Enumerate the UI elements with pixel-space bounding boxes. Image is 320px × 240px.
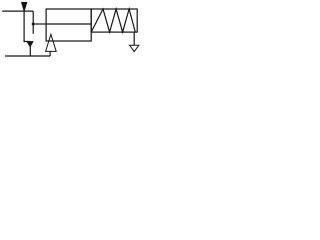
spring box xyxy=(91,9,137,32)
wire pilot pipe C xyxy=(5,55,50,57)
wire pipe B stub xyxy=(32,11,34,34)
wire supply drop line xyxy=(24,11,30,41)
wire exhaust stub xyxy=(133,32,135,45)
exhaust triangle xyxy=(130,45,139,51)
valve body left box xyxy=(46,9,91,41)
flow arrow T2 xyxy=(27,42,33,47)
wire pilot riser xyxy=(49,51,51,56)
node junction dot xyxy=(32,23,35,26)
wire pipe D to valve xyxy=(33,23,46,25)
divider line in body xyxy=(46,23,91,25)
wire supply pipe A xyxy=(2,10,33,12)
spring zigzag xyxy=(91,9,135,32)
wire drop to pilot pipe xyxy=(29,42,31,56)
pilot arrow caret xyxy=(46,34,57,51)
pressure source arrow T1 xyxy=(22,2,27,11)
